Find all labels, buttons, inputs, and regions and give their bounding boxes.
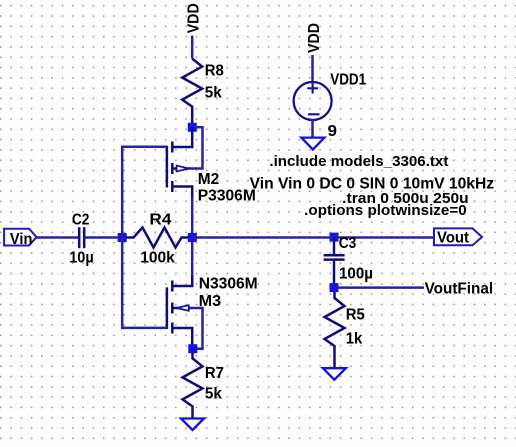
port Vout — [434, 228, 482, 245]
svg-text:Vout: Vout — [437, 230, 470, 247]
svg-text:100k: 100k — [140, 249, 175, 266]
svg-text:5k: 5k — [205, 386, 222, 403]
svg-text:R8: R8 — [205, 63, 224, 80]
minus sign — [308, 113, 320, 115]
svg-text:Vin: Vin — [10, 231, 33, 248]
wire M2 drain to output node — [191, 197, 194, 238]
svg-text:C2: C2 — [72, 211, 90, 228]
svg-text:100µ: 100µ — [339, 266, 373, 283]
wire VDD label to source — [311, 55, 314, 83]
wire C3 bottom — [333, 261, 336, 288]
junction node C3 top — [330, 233, 339, 242]
svg-text:1k: 1k — [346, 331, 363, 348]
svg-text:VDD: VDD — [306, 23, 323, 53]
wire to VoutFinal label — [334, 286, 424, 289]
resistor R7 — [183, 353, 203, 418]
wire source to ground — [311, 120, 314, 138]
ground under R7 — [181, 419, 204, 431]
resistor R4 — [126, 228, 188, 248]
junction node input/gate — [118, 233, 127, 242]
svg-text:9: 9 — [328, 123, 338, 140]
port Vin — [4, 229, 36, 246]
junction node R8/M2 source/bulk — [188, 123, 197, 132]
svg-text:R5: R5 — [346, 306, 365, 323]
junction node C3 bottom / VoutFinal — [330, 283, 339, 292]
svg-text:VDD: VDD — [186, 3, 203, 33]
M2 bulk wire — [189, 127, 203, 168]
M2 source lead — [172, 127, 192, 147]
M3 bulk wire — [189, 308, 203, 349]
wire output rail — [192, 236, 334, 239]
M2 drain lead — [172, 187, 192, 199]
M3 source lead — [172, 328, 192, 349]
wire Vin to C2 — [37, 236, 80, 239]
M2 bulk arrow (points right) — [177, 166, 189, 172]
ground under R5 — [323, 368, 346, 380]
svg-text:C3: C3 — [339, 235, 357, 252]
capacitor C3 — [324, 255, 345, 259]
junction node drain/output — [188, 233, 197, 242]
junction node M3 source/R7 — [188, 344, 197, 353]
M2 gate bar — [166, 146, 169, 188]
voltage source VDD1 — [294, 82, 332, 120]
svg-text:.options plotwinsize=0: .options plotwinsize=0 — [304, 202, 467, 219]
svg-text:M2: M2 — [198, 171, 220, 188]
plus sign — [307, 87, 318, 89]
svg-text:.include models_3306.txt: .include models_3306.txt — [269, 153, 448, 170]
svg-text:5k: 5k — [205, 84, 222, 101]
svg-text:M3: M3 — [199, 293, 222, 310]
wire C3 node to Vout port — [334, 236, 434, 239]
svg-text:N3306M: N3306M — [199, 275, 258, 292]
svg-text:VDD1: VDD1 — [330, 71, 366, 88]
M3 drain lead — [172, 275, 192, 286]
M3 channel segments — [171, 281, 174, 292]
transistor M3 N3306M — [167, 238, 203, 349]
resistor R8 — [182, 59, 202, 123]
M2 channel segments — [171, 142, 174, 153]
capacitor C2 — [79, 227, 84, 248]
ground under VDD1 — [301, 138, 324, 150]
svg-text:VoutFinal: VoutFinal — [425, 281, 494, 298]
wire VDD label to R8 — [191, 36, 194, 59]
transistor M2 P3306M — [167, 127, 203, 238]
M3 bulk lead — [172, 307, 190, 310]
M3 bulk arrow (points left) — [177, 305, 189, 311]
M3 gate bar — [166, 287, 169, 329]
svg-text:P3306M: P3306M — [198, 188, 256, 205]
svg-text:R7: R7 — [205, 365, 224, 382]
svg-text:10µ: 10µ — [69, 249, 94, 266]
svg-text:R4: R4 — [149, 211, 171, 228]
wire output node to M3 drain — [191, 238, 194, 277]
wire gate bus — [122, 147, 167, 328]
wire C3 top — [333, 238, 336, 255]
M2 bulk lead — [172, 167, 190, 170]
wire C2 to node — [84, 236, 122, 239]
resistor R5 — [325, 292, 345, 368]
